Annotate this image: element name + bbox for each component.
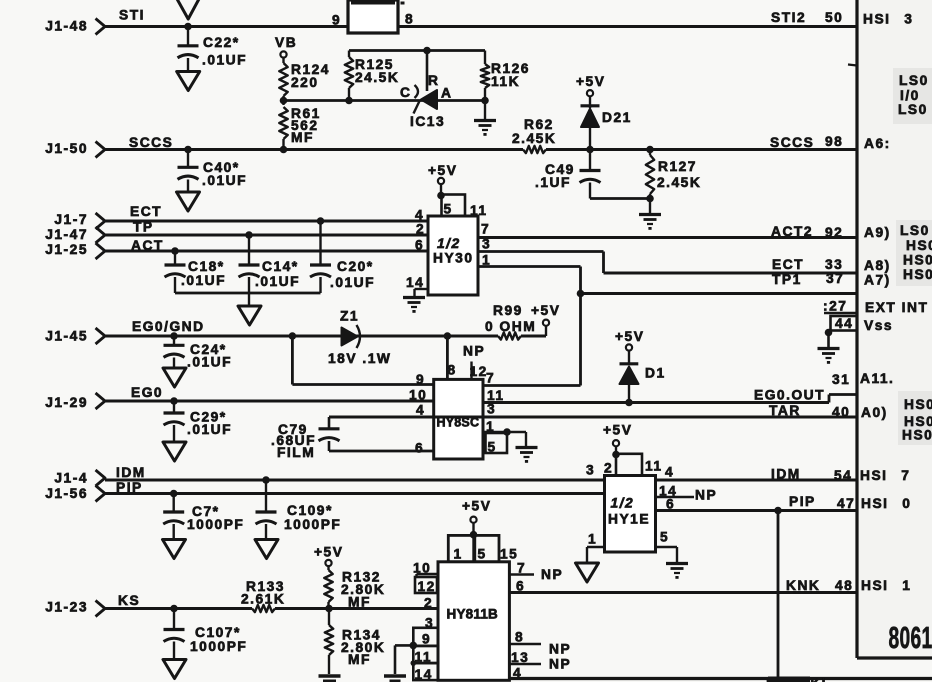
labels 31 / A11 bbox=[832, 371, 894, 387]
node PIP branch bbox=[774, 507, 782, 515]
svg-text:FILM: FILM bbox=[277, 445, 315, 460]
HY30 pin 7 label bbox=[481, 222, 490, 237]
HY811B pin 13 NP stub bbox=[509, 650, 571, 672]
HY30 pin5 box bbox=[442, 195, 488, 219]
labels TP1 / 37 / A7 bbox=[772, 271, 891, 288]
node R61/SCCS bbox=[280, 146, 288, 154]
HY811B pin 7 NP stub bbox=[509, 561, 563, 583]
labels KNK / 48 / HSI 1 bbox=[786, 578, 911, 593]
svg-text:4: 4 bbox=[665, 465, 674, 480]
ground (cut) above STI bbox=[177, 0, 200, 19]
ground below C14 bus bbox=[238, 293, 261, 325]
svg-text:.01UF: .01UF bbox=[187, 422, 232, 437]
svg-text:8: 8 bbox=[405, 12, 414, 27]
svg-text:C14*: C14* bbox=[262, 259, 299, 274]
power +5V R132 bbox=[314, 545, 343, 571]
connector pin J1-47 bbox=[45, 227, 105, 243]
capacitor C24 bbox=[164, 336, 233, 370]
svg-text:C22*: C22* bbox=[203, 35, 240, 50]
HY8SC pin 7 label bbox=[486, 371, 495, 386]
svg-text:10: 10 bbox=[409, 388, 427, 403]
svg-text:D1: D1 bbox=[645, 366, 666, 381]
net label ACT bbox=[131, 238, 164, 253]
cut labels LS0 I/O LS0 top bbox=[898, 73, 929, 117]
8061 chip edge bbox=[857, 0, 932, 658]
connector pin J1-23 bbox=[45, 600, 105, 617]
node EG0/GND / HY8SC pin 8 bbox=[444, 332, 452, 340]
node R125 bottom bbox=[345, 97, 353, 105]
node PIP / C7 bbox=[170, 490, 178, 498]
svg-text:5: 5 bbox=[660, 530, 669, 545]
svg-text:HS0: HS0 bbox=[903, 253, 932, 268]
svg-text:1000PF: 1000PF bbox=[284, 517, 341, 532]
svg-text:NP: NP bbox=[549, 657, 571, 672]
svg-text:3: 3 bbox=[586, 463, 595, 478]
svg-text:+5V: +5V bbox=[531, 303, 560, 318]
node SCCS / C40 bbox=[184, 146, 192, 154]
svg-text:NP: NP bbox=[549, 642, 571, 657]
HY8SC pin 10 label bbox=[409, 388, 427, 403]
HY8SC pin 1 label bbox=[486, 419, 495, 434]
HY8SC pin 4 label bbox=[416, 403, 425, 418]
svg-text:J1-48: J1-48 bbox=[45, 19, 88, 34]
connector pin J1-48 bbox=[45, 19, 105, 35]
svg-text:0 OHM: 0 OHM bbox=[485, 319, 536, 334]
HY8SC pin 3 label bbox=[487, 402, 496, 417]
svg-text:IDM: IDM bbox=[771, 467, 801, 482]
HY811B pin 3 label bbox=[425, 616, 434, 631]
svg-text:IC13: IC13 bbox=[410, 114, 445, 129]
svg-text:MF: MF bbox=[291, 130, 314, 145]
capacitor C20 bbox=[310, 221, 375, 293]
svg-text:LS0: LS0 bbox=[900, 223, 930, 238]
svg-text:7: 7 bbox=[517, 561, 526, 576]
resistor R61 562 MF bbox=[279, 106, 321, 150]
svg-text:7: 7 bbox=[486, 371, 495, 386]
svg-text:J1-23: J1-23 bbox=[45, 600, 88, 615]
svg-text:HSI 1: HSI 1 bbox=[861, 578, 911, 593]
wire pin-box ground bbox=[395, 645, 413, 674]
HY811B pin 2 label bbox=[424, 596, 433, 611]
svg-text:40: 40 bbox=[832, 405, 850, 420]
ground below HY1E pin5 bbox=[666, 564, 688, 579]
wire IDM left bbox=[105, 479, 605, 482]
Vss pin 44 box bbox=[831, 316, 894, 333]
svg-text:+5V: +5V bbox=[314, 545, 343, 560]
net label IDM bbox=[116, 465, 146, 480]
Vss ground wire bbox=[825, 329, 833, 348]
svg-text:A6:: A6: bbox=[864, 136, 891, 151]
svg-text:J1-25: J1-25 bbox=[45, 242, 88, 257]
svg-text:A8): A8) bbox=[864, 258, 891, 273]
HY811B pin14 box bbox=[413, 663, 438, 682]
connector pin J1-56 bbox=[45, 486, 105, 502]
svg-text:TP: TP bbox=[133, 220, 154, 235]
resistor R125 24.5K bbox=[345, 51, 400, 101]
HY30 pin 14 label bbox=[406, 275, 424, 290]
wire SCCS right bbox=[546, 148, 857, 151]
node SCCS / R127 bbox=[646, 146, 654, 154]
wire TAR (pins 4/3) bbox=[329, 416, 857, 419]
HY1E pin 14 NP stub bbox=[656, 484, 718, 503]
svg-text:EG0: EG0 bbox=[131, 385, 163, 400]
svg-text:MF: MF bbox=[348, 595, 371, 610]
node rail / IC13 bbox=[423, 47, 431, 55]
svg-text:A11.: A11. bbox=[860, 371, 894, 386]
svg-text:9: 9 bbox=[332, 13, 341, 28]
svg-text:J1-56: J1-56 bbox=[45, 486, 88, 501]
op-amp U-HY30 box bbox=[428, 216, 478, 295]
svg-text:14: 14 bbox=[415, 667, 433, 682]
zener Z1 18V .1W bbox=[328, 309, 391, 367]
svg-text:C: C bbox=[400, 85, 411, 100]
capacitor C40 bbox=[178, 150, 248, 193]
connector pin J1-7 bbox=[54, 212, 105, 229]
wire ACT bbox=[105, 250, 428, 253]
wire to HY8SC pin 8 (top) bbox=[446, 336, 449, 379]
ground below C22 bbox=[177, 72, 200, 91]
svg-text:5: 5 bbox=[478, 547, 487, 562]
wire HY811B pin 4 bottom bbox=[509, 677, 932, 680]
svg-text:1: 1 bbox=[454, 547, 463, 562]
svg-text:+5V: +5V bbox=[462, 499, 491, 514]
wire ECT out bbox=[478, 252, 857, 274]
svg-text:11: 11 bbox=[645, 459, 663, 474]
wire PIP out (pin 6) bbox=[656, 509, 858, 512]
svg-text:STI2: STI2 bbox=[771, 10, 806, 25]
comparator U-HY8SC box bbox=[434, 379, 483, 459]
power +5V HY811B bbox=[462, 499, 491, 539]
svg-text:.01UF: .01UF bbox=[181, 273, 226, 288]
capacitor C49 bbox=[535, 150, 601, 199]
svg-text:.01UF: .01UF bbox=[255, 274, 300, 289]
svg-text:+5V: +5V bbox=[576, 74, 605, 89]
cut labels LS0 HS0 group mid bbox=[900, 223, 932, 282]
svg-text:92: 92 bbox=[825, 225, 843, 240]
node TP1 branch bbox=[577, 290, 585, 298]
HY811B pin 8 NP stub bbox=[509, 630, 571, 657]
net label ECT bbox=[130, 204, 162, 219]
resistor R62 2.45K bbox=[512, 117, 556, 153]
bottom cut-off label bbox=[766, 676, 826, 682]
svg-text:HS0: HS0 bbox=[906, 238, 932, 253]
svg-text:J1-7: J1-7 bbox=[54, 212, 88, 227]
capacitor C29 bbox=[164, 401, 233, 442]
resistor R126 11K bbox=[481, 51, 530, 101]
buffer U-HY811B box bbox=[438, 562, 509, 681]
pin 8 label bbox=[405, 12, 414, 27]
wire KS right to HY811B pin 2 bbox=[275, 607, 438, 610]
svg-text:J1-45: J1-45 bbox=[45, 329, 88, 344]
svg-text:R: R bbox=[428, 73, 439, 88]
IC box (partial, top) bbox=[348, 0, 398, 33]
svg-text:37: 37 bbox=[826, 271, 844, 286]
HY8SC pin5 box bbox=[486, 433, 508, 455]
capacitor C107 bbox=[164, 609, 248, 660]
ground below pin boxes bbox=[384, 676, 406, 681]
svg-text:NP: NP bbox=[463, 344, 485, 359]
svg-text:KNK: KNK bbox=[786, 578, 820, 593]
svg-text:2: 2 bbox=[604, 461, 613, 476]
net label TP bbox=[133, 220, 154, 235]
wire C49 to R127 bottom bbox=[590, 195, 654, 203]
svg-text:33: 33 bbox=[825, 257, 843, 272]
connector pin J1-25 bbox=[45, 242, 105, 259]
resistor R127 2.45K bbox=[646, 150, 702, 199]
HY30 pin 3 label bbox=[482, 237, 491, 252]
diode D21 bbox=[576, 74, 632, 150]
labels EG0.OUT label bbox=[754, 388, 825, 403]
svg-text:1: 1 bbox=[588, 532, 597, 547]
svg-text:NP: NP bbox=[695, 488, 717, 503]
HY30 pin 4 label bbox=[415, 208, 424, 223]
HY811B pin1 box bbox=[448, 535, 473, 561]
svg-text:LS0: LS0 bbox=[899, 73, 929, 88]
svg-text:44: 44 bbox=[835, 316, 853, 331]
8061 label bbox=[889, 622, 932, 656]
wire EG0 to HY8SC pin 10 bbox=[105, 400, 434, 403]
wire STI J1-48 to IC9 pin 9 bbox=[105, 25, 348, 28]
HY811B pin 4 label bbox=[513, 666, 522, 681]
connector pin J1-4 bbox=[54, 470, 105, 486]
wire to HY8SC pin 9 bbox=[292, 336, 433, 385]
svg-text:4: 4 bbox=[415, 208, 424, 223]
capacitor C79 .68UF FILM bbox=[271, 417, 434, 460]
svg-text:SCCS: SCCS bbox=[129, 135, 173, 150]
node EG0/GND / C24 bbox=[170, 332, 178, 340]
labels 27 / EXT INT bbox=[823, 299, 928, 316]
connector pin J1-29 bbox=[45, 393, 105, 410]
svg-text:J1-50: J1-50 bbox=[45, 141, 88, 156]
svg-text:1/2: 1/2 bbox=[611, 496, 635, 511]
ground below C24 bbox=[163, 368, 186, 387]
ground below HY8SC pin1 bbox=[516, 432, 538, 463]
svg-text:31: 31 bbox=[832, 372, 850, 387]
svg-text:HS0: HS0 bbox=[902, 428, 932, 443]
svg-text:Vss: Vss bbox=[864, 318, 893, 333]
HY811B pin 10 stub bbox=[413, 561, 438, 578]
svg-text:.01UF: .01UF bbox=[202, 173, 247, 188]
wire SCCS left bbox=[105, 148, 523, 151]
wire ACT2 out bbox=[478, 236, 857, 239]
svg-text:5: 5 bbox=[444, 202, 453, 217]
HY1E pin 1 ground bbox=[587, 532, 605, 564]
svg-text:PIP: PIP bbox=[789, 494, 816, 509]
diode D1 bbox=[615, 329, 666, 403]
labels STI2 / 50 / HSI 3 bbox=[771, 10, 913, 27]
svg-text:15: 15 bbox=[500, 547, 518, 562]
svg-text:C109*: C109* bbox=[287, 503, 333, 518]
svg-text:EG0/GND: EG0/GND bbox=[132, 319, 205, 334]
node VB bbox=[275, 35, 297, 63]
svg-text:220: 220 bbox=[291, 75, 319, 90]
svg-text:IDM: IDM bbox=[116, 465, 146, 480]
svg-text:12: 12 bbox=[418, 579, 436, 594]
wire capacitor common bbox=[175, 292, 321, 295]
HY811B pin 6 label bbox=[516, 579, 525, 594]
svg-text:47: 47 bbox=[837, 496, 855, 511]
net label EG0/GND bbox=[132, 319, 205, 334]
svg-text:EXT INT: EXT INT bbox=[865, 300, 928, 315]
pin 9 label bbox=[332, 13, 341, 28]
cut labels HS0 group lower bbox=[902, 397, 932, 443]
labels SCCS / 98 / A6 bbox=[770, 134, 891, 151]
node SCCS / D21 bbox=[586, 146, 594, 154]
svg-text:EG0.OUT: EG0.OUT bbox=[754, 388, 825, 403]
wire EG0/GND left bbox=[105, 335, 498, 338]
svg-text:+5V: +5V bbox=[603, 423, 632, 438]
svg-text:4: 4 bbox=[416, 403, 425, 418]
comparator U-HY1E box bbox=[605, 476, 656, 553]
wire STI pin 8 to 8061 pin 50 bbox=[398, 25, 857, 28]
resistor R124 220 bbox=[279, 62, 330, 96]
svg-text:A0): A0) bbox=[861, 405, 888, 420]
svg-text:HS0: HS0 bbox=[903, 267, 932, 282]
svg-text:.01UF: .01UF bbox=[187, 355, 232, 370]
svg-text:9: 9 bbox=[422, 632, 431, 647]
wire TP1 out bbox=[478, 267, 857, 294]
svg-text:R99: R99 bbox=[493, 303, 523, 318]
capacitor C14 bbox=[239, 235, 301, 293]
labels TAR / 40 / A0 bbox=[769, 403, 888, 420]
svg-text:C107*: C107* bbox=[195, 625, 241, 640]
capacitor C18 bbox=[165, 251, 227, 293]
svg-text:8: 8 bbox=[448, 363, 457, 378]
node EG0 / C29 bbox=[170, 397, 178, 405]
svg-text:+5V: +5V bbox=[428, 163, 457, 178]
ground below R134 bbox=[319, 676, 341, 681]
HY1E pin 5 ground bbox=[656, 530, 678, 563]
labels ECT / 33 / A8 bbox=[772, 257, 891, 273]
resistor R134 2.80K MF bbox=[325, 609, 386, 675]
HY811B pin5 box bbox=[475, 535, 519, 561]
capacitor C22 bbox=[178, 27, 248, 72]
8061 chip tick bbox=[848, 65, 857, 66]
wire TP1 to HY8SC pin7 bbox=[483, 294, 581, 386]
svg-text:HSI 0: HSI 0 bbox=[861, 496, 911, 511]
svg-text:TP1: TP1 bbox=[772, 272, 802, 287]
svg-text:+5V: +5V bbox=[615, 329, 644, 344]
svg-text:D21: D21 bbox=[602, 110, 632, 125]
HY1E pin2 box bbox=[586, 454, 674, 480]
node KS / C107 bbox=[170, 605, 178, 613]
transistor IC13 bbox=[400, 51, 452, 130]
svg-text:6: 6 bbox=[415, 441, 424, 456]
svg-text:.1UF: .1UF bbox=[535, 175, 571, 190]
wire EG0.OUT (pin 11) bbox=[483, 395, 857, 403]
labels IDM / 54 / HSI 7 bbox=[771, 467, 910, 484]
svg-text:9: 9 bbox=[416, 372, 425, 387]
wire HY8SC pin 1 bbox=[483, 428, 526, 436]
ground below C29 bbox=[163, 442, 186, 461]
svg-text:13: 13 bbox=[511, 650, 529, 665]
node pin11 box corner bbox=[411, 660, 417, 666]
svg-text:2: 2 bbox=[424, 596, 433, 611]
net label SCCS bbox=[129, 135, 173, 150]
node IDM / C109 bbox=[262, 476, 270, 484]
power +5V HY1E bbox=[603, 423, 632, 459]
svg-text:A: A bbox=[441, 86, 452, 101]
svg-text:48: 48 bbox=[835, 578, 853, 593]
svg-text:1/2: 1/2 bbox=[437, 236, 461, 251]
resistor R133 2.61K bbox=[241, 579, 285, 612]
svg-text:2: 2 bbox=[416, 222, 425, 237]
svg-text:MF: MF bbox=[348, 652, 371, 667]
wire PIP down bbox=[777, 511, 780, 679]
svg-text:HY811B: HY811B bbox=[447, 607, 499, 622]
svg-text:HY30: HY30 bbox=[433, 251, 474, 266]
svg-text:.01UF: .01UF bbox=[330, 275, 375, 290]
svg-text:1000PF: 1000PF bbox=[190, 639, 247, 654]
node R126 bottom bbox=[481, 97, 489, 120]
svg-text::27: :27 bbox=[823, 299, 847, 314]
labels ACT2 / 92 / A9 bbox=[771, 224, 891, 240]
resistor R99 0 OHM bbox=[485, 303, 536, 340]
svg-text:HSI 7: HSI 7 bbox=[860, 468, 910, 483]
power +5V HY30 bbox=[428, 163, 457, 199]
HY811B pin11 box bbox=[413, 646, 438, 665]
svg-text:7: 7 bbox=[481, 222, 490, 237]
HY30 pin 6 label bbox=[415, 238, 424, 253]
wire KNK to 8061 pin 48 bbox=[509, 591, 857, 594]
svg-text:I/0: I/0 bbox=[900, 88, 920, 103]
ground below Vss bbox=[818, 349, 840, 364]
HY811B pin9 box bbox=[413, 628, 438, 647]
svg-text:.01UF: .01UF bbox=[202, 53, 247, 68]
svg-text:HS0: HS0 bbox=[904, 397, 932, 412]
HY811B pin12 box bbox=[415, 577, 437, 594]
net label KS bbox=[118, 593, 140, 608]
ground below C107 bbox=[163, 660, 186, 679]
svg-text:8: 8 bbox=[515, 630, 524, 645]
svg-text:ACT2: ACT2 bbox=[771, 224, 813, 239]
wire PIP left (pin 7) bbox=[105, 492, 605, 495]
svg-text:Z1: Z1 bbox=[340, 309, 359, 324]
HY8SC pin 8 label bbox=[448, 363, 457, 378]
svg-text:NP: NP bbox=[541, 567, 563, 582]
svg-text:24.5K: 24.5K bbox=[355, 70, 399, 85]
ground below HY30 pin14 bbox=[403, 298, 425, 313]
svg-text:ECT: ECT bbox=[130, 204, 162, 219]
wire KS left bbox=[105, 607, 252, 610]
svg-text:LS0: LS0 bbox=[898, 102, 928, 117]
capacitor C7 bbox=[163, 494, 244, 540]
ground below R126 bbox=[474, 121, 496, 136]
svg-text:5: 5 bbox=[488, 440, 497, 455]
wire IDM right to 8061 pin 54 bbox=[656, 479, 858, 482]
svg-text:18V .1W: 18V .1W bbox=[328, 351, 391, 366]
HY1E pin 6 label bbox=[666, 497, 675, 512]
power +5V R99 bbox=[531, 303, 560, 336]
HY8SC pin 6 label bbox=[415, 441, 424, 456]
svg-text:STI: STI bbox=[119, 8, 145, 23]
svg-text:R127: R127 bbox=[658, 159, 697, 174]
HY30 pin 1 label bbox=[482, 253, 491, 268]
svg-text:J1-4: J1-4 bbox=[54, 471, 88, 486]
net label PIP bbox=[116, 480, 143, 495]
svg-text:ECT: ECT bbox=[772, 257, 804, 272]
resistor R132 2.80K MF bbox=[324, 570, 385, 610]
net label STI bbox=[119, 8, 145, 23]
svg-text:TAR: TAR bbox=[769, 403, 801, 418]
svg-text:1000PF: 1000PF bbox=[187, 517, 244, 532]
svg-text:A9): A9) bbox=[864, 225, 891, 240]
wire TP bbox=[105, 234, 428, 237]
ground below C7 bbox=[163, 540, 186, 559]
scan-noise background patches bbox=[858, 0, 932, 658]
svg-text:KS: KS bbox=[118, 593, 140, 608]
wire ECT bbox=[105, 220, 428, 223]
